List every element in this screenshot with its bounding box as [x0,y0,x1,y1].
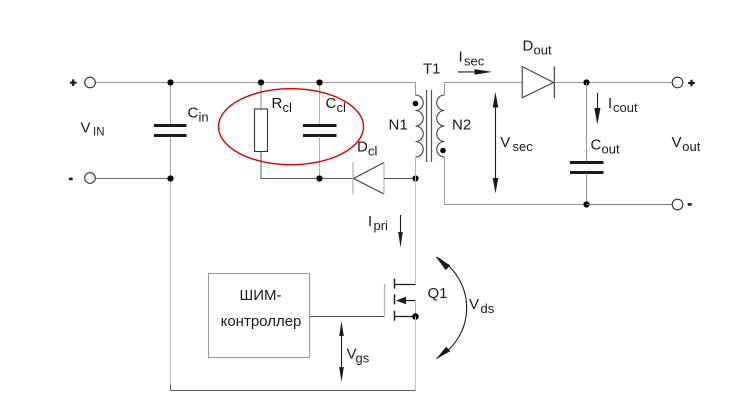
arrow Isec [458,69,492,75]
svg-text:cl: cl [337,100,347,115]
transistor Q1 channel ticks [394,279,396,321]
wire Rcl top lead [260,83,262,110]
capacitor Cout [570,163,604,173]
svg-text:I: I [459,49,463,66]
transformer core [427,90,432,162]
plus sign input [70,79,77,86]
svg-text:I: I [608,95,612,112]
wire secondary top lead [445,83,523,96]
red highlight ellipse [219,89,364,165]
minus sign input [69,178,73,181]
transformer primary winding N1 [416,95,424,157]
svg-text:T1: T1 [423,61,441,78]
svg-text:Q1: Q1 [428,285,448,302]
arrow Icout [594,93,600,125]
capacitor Cin [154,126,187,136]
arrowhead Vds bottom [436,347,450,359]
svg-text:ds: ds [481,301,495,316]
wire Dout to output [554,82,672,84]
svg-text:D: D [357,139,368,156]
wire Dcl anode to drain node [384,178,416,180]
svg-text:N2: N2 [452,116,471,133]
terminal + input [85,77,96,88]
svg-text:out: out [602,142,620,157]
wire secondary bottom lead [445,157,587,205]
node dot top Cin [167,79,173,85]
polarity dot primary [413,101,419,107]
terminal - output [672,199,683,210]
wire body to source [415,301,417,317]
svg-text:V: V [500,134,510,151]
svg-text:in: in [199,110,209,125]
svg-text:C: C [591,137,602,154]
node dot Ccl top [316,79,322,85]
wire gate [310,316,385,318]
terminal - input [85,173,96,184]
minus sign output [688,203,692,206]
svg-text:контроллер: контроллер [221,313,302,330]
diode Dcl cathode bar [352,162,354,195]
wire drain vertical [415,179,417,285]
wire Ccl top lead [319,83,321,125]
svg-text:out: out [682,139,700,154]
resistor Rcl [255,109,268,152]
svg-text:gs: gs [356,351,370,366]
arrow Vsec double [493,92,499,194]
svg-text:out: out [534,43,552,58]
capacitor Ccl [303,126,337,136]
node dot Ccl bottom [316,175,322,181]
node dot bottom Cin [167,175,173,181]
svg-text:C: C [188,105,199,122]
svg-text:V: V [81,120,91,137]
svg-text:R: R [272,95,283,112]
svg-text:IN: IN [93,127,105,139]
wire Rcl bottom to clamp [261,152,353,179]
wire primary bottom lead [415,157,417,179]
svg-text:N1: N1 [389,116,408,133]
transistor Q1 body arrow [396,297,416,304]
diode Dcl triangle [354,163,385,195]
node dot output bottom [583,201,589,207]
svg-text:cout: cout [613,100,638,115]
svg-text:V: V [469,296,479,313]
wire output bottom rail [587,204,673,206]
wire Cout bottom lead [586,174,588,205]
transistor Q1 drain lead [395,284,416,286]
svg-text:sec: sec [513,139,534,154]
wire Cin top lead [170,83,172,126]
diode Dout cathode bar [553,67,555,99]
svg-text:C: C [326,95,337,112]
svg-text:I: I [368,213,372,230]
wire source to bottom rail [415,317,417,391]
wire Cin bottom lead [170,137,172,179]
svg-text:cl: cl [283,100,293,115]
arrow Vgs double [339,321,344,382]
node dot drain top [412,175,418,181]
transistor Q1 source lead [395,316,416,318]
svg-text:V: V [672,134,682,151]
svg-text:sec: sec [464,54,485,69]
diode Dout triangle [522,67,553,98]
polarity dot secondary [440,148,446,154]
svg-text:pri: pri [374,218,389,233]
node dot output top [583,79,589,85]
transistor Q1 gate bar [384,284,386,317]
PWM controller box [209,274,310,358]
arrowhead Vds top [436,257,450,270]
svg-text:ШИМ-: ШИМ- [239,287,281,304]
arc Vds [436,257,466,359]
svg-text:D: D [523,38,534,55]
transformer secondary winding N2 [437,95,445,157]
terminal + output [672,77,683,88]
wire primary top lead [415,83,417,96]
arrow Ipri [398,215,403,248]
wire top rail [96,82,416,84]
wire bottom rail [171,385,416,391]
wire left vertical [170,179,172,386]
wire Ccl bottom lead [319,137,321,179]
wire Cout top lead [586,83,588,162]
plus sign output [688,80,695,87]
node dot Rcl top [258,79,264,85]
node dot source [412,313,419,320]
svg-text:cl: cl [368,144,378,159]
wire - input [96,178,171,180]
